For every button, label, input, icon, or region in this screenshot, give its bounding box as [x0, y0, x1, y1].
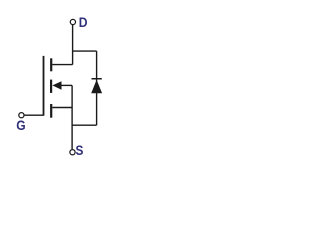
terminal D [70, 19, 75, 24]
terminal G [19, 113, 24, 118]
wire source stub [52, 107, 72, 109]
wire top rail to diode [73, 50, 97, 52]
wire drain vertical [72, 25, 74, 65]
wire body-source vertical [71, 85, 73, 149]
wire diode branch vertical [96, 51, 98, 125]
wire bottom rail to diode [72, 124, 97, 126]
terminal S [70, 150, 75, 155]
transistor Q1 n-channel MOSFET gate bar [43, 56, 45, 116]
transistor Q1 body channel segment [50, 80, 52, 93]
diode D1 body diode triangle [91, 80, 102, 93]
svg-text:D: D [79, 15, 88, 30]
svg-text:G: G [16, 118, 25, 133]
svg-text:S: S [76, 143, 84, 158]
transistor Q1 drain channel segment [50, 58, 52, 71]
transistor Q1 source channel segment [50, 104, 52, 118]
transistor Q1 body arrow [52, 81, 61, 90]
diode D1 cathode bar [92, 78, 102, 80]
wire body stub [61, 84, 73, 86]
wire gate lead [24, 114, 43, 116]
wire drain stub [52, 64, 72, 66]
